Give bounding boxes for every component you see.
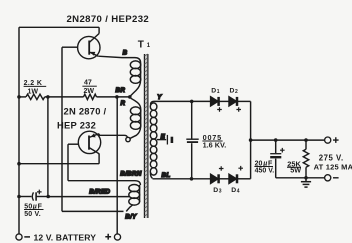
svg-text:D: D [230, 88, 235, 95]
node dot BR/R junction [128, 95, 132, 99]
transformer secondary winding [150, 101, 157, 178]
diode D1 [211, 97, 219, 106]
resistor R2 47 2W [84, 94, 97, 99]
wire 50uF row left [19, 196, 31, 198]
svg-text:50 V.: 50 V. [24, 211, 41, 218]
wire D3-D4 [220, 178, 230, 180]
terminal battery plus [114, 234, 120, 240]
node dot 25K bottom [304, 176, 308, 180]
node dot plus rail junction [249, 138, 253, 142]
terminal output plus [325, 137, 331, 143]
svg-text:D: D [231, 187, 236, 194]
transformer primary winding upper B-BR [130, 61, 140, 96]
label plus D3 [219, 166, 224, 171]
label D4 [231, 187, 240, 194]
label D2 [230, 88, 239, 95]
label 50uF / 50V [24, 203, 42, 218]
transformer primary winding lower B/BRN-B/RED-B/Y [126, 185, 139, 212]
wire Q2 base rail down [67, 144, 69, 181]
resistor R3 25K 5W [303, 140, 308, 178]
node dot 50uF / B-RED junction [46, 195, 50, 199]
svg-text:B/RED: B/RED [89, 188, 110, 195]
wire Q1 base row to B/Y [62, 210, 124, 212]
svg-text:2N 2870 /: 2N 2870 / [64, 106, 107, 117]
svg-text:47: 47 [84, 80, 92, 87]
transistor Q2 [78, 131, 100, 153]
wire Q2 emitter row [99, 134, 128, 138]
label 25K / 5W [287, 159, 301, 174]
label 0075 / 1.6KV [203, 133, 227, 150]
svg-text:D: D [211, 88, 216, 95]
wire top rail (Q1 collector to left rail) [19, 26, 99, 28]
terminal output minus [325, 175, 331, 181]
svg-text:B/Y: B/Y [125, 213, 137, 220]
transformer feedback winding R [130, 98, 141, 138]
wire minus rail [276, 177, 325, 179]
svg-text:B: B [123, 50, 128, 57]
svg-text:3: 3 [219, 188, 222, 194]
wire +12 rail [116, 97, 118, 234]
terminal open circle R winding end [126, 137, 130, 141]
node dot left rail / 50uF row [17, 195, 21, 199]
node dot collector row / left rail [17, 162, 21, 166]
svg-text:1: 1 [147, 43, 151, 49]
label T1 [138, 40, 151, 51]
wire secondary bottom rail [153, 178, 211, 180]
label Q2 2N2870/HEP232 [57, 106, 107, 131]
diode D2 [229, 97, 237, 106]
diode D3 [211, 174, 219, 183]
wire D4 to plus node [238, 178, 251, 180]
svg-text:AT 125 MA: AT 125 MA [314, 163, 352, 172]
label battery plus sign [105, 234, 111, 240]
label output minus sign [333, 177, 339, 179]
label plus C3 [280, 148, 285, 153]
wire secondary top rail [154, 100, 211, 102]
wire D2 to plus node [238, 100, 251, 102]
label 2.2K / 1W [24, 80, 43, 96]
node dot top rail cap branch [190, 100, 194, 104]
wire Q2 base lead [68, 143, 78, 145]
ground symbol [301, 178, 311, 187]
svg-text:T: T [138, 40, 144, 51]
wire Q1 base rail down [61, 47, 63, 211]
label output plus sign [333, 137, 339, 143]
label plus D4 [238, 166, 243, 171]
node dot 20uF top [274, 138, 278, 142]
wire rectifier plus node vertical [250, 101, 252, 178]
svg-text:E: E [161, 134, 166, 141]
capacitor C1 50uF 50V [32, 192, 36, 200]
wire Q1 emitter to transformer B lead [98, 56, 140, 63]
wire resistor row middle [45, 96, 84, 98]
label 47 / 2W [84, 80, 95, 95]
svg-text:275 V.: 275 V. [319, 154, 344, 163]
label plus D1 [217, 107, 222, 112]
wire Q2 base row to B/BRN [68, 181, 140, 185]
wire Q1 base lead [62, 46, 78, 48]
wire Q1 collector drop [98, 27, 100, 33]
label D1 [211, 88, 220, 95]
transformer E tap with chassis bars [157, 135, 172, 145]
node dot 25K top [304, 138, 308, 142]
node dot 2.2K/47 junction [46, 95, 50, 99]
svg-text:Y: Y [157, 94, 162, 101]
capacitor C2 0075 1.6KV [186, 101, 198, 178]
wire Q2 collector lead [98, 153, 100, 164]
svg-text:R: R [121, 100, 126, 107]
transformer T1 core [144, 54, 148, 218]
node dot left rail / resistor row [17, 95, 21, 99]
svg-text:2N2870 / HEP232: 2N2870 / HEP232 [67, 14, 150, 25]
label 20uF / 450V [255, 160, 275, 174]
terminal battery minus [16, 234, 22, 240]
svg-text:HEP 232: HEP 232 [57, 120, 96, 131]
label D3 [213, 187, 222, 194]
svg-text:D: D [213, 187, 218, 194]
resistor R1 2.2K 1W [26, 94, 45, 99]
svg-text:1.6 KV.: 1.6 KV. [203, 141, 227, 150]
capacitor C3 20uF 450V [270, 140, 281, 178]
wire bias junction drop [47, 97, 49, 197]
diode D4 [229, 174, 237, 183]
svg-text:1: 1 [217, 89, 220, 95]
svg-text:B/BRN: B/BRN [120, 170, 142, 177]
svg-text:2W: 2W [84, 88, 95, 95]
svg-text:450 V.: 450 V. [255, 168, 275, 175]
label plus D2 [236, 107, 241, 112]
wire resistor row right [97, 96, 130, 98]
wire Q2 collector row to left rail [19, 163, 99, 165]
svg-text:2.2 K: 2.2 K [24, 80, 43, 87]
wire plus output rail [251, 139, 325, 141]
transistor Q1 [78, 34, 100, 59]
label 275V AT 125MA [314, 154, 352, 172]
wire resistor row left [19, 96, 26, 98]
svg-text:1W: 1W [28, 89, 39, 96]
wire B/RED row [48, 196, 129, 198]
svg-text:4: 4 [237, 188, 240, 194]
node dot bottom rail cap branch [190, 177, 194, 181]
label battery minus sign [24, 236, 30, 238]
wire D1-D2 [220, 100, 230, 102]
svg-text:2: 2 [235, 89, 238, 95]
svg-text:12 V. BATTERY: 12 V. BATTERY [34, 232, 97, 242]
node dot +12 junction [115, 95, 119, 99]
svg-text:BR: BR [116, 87, 126, 94]
wire left rail [18, 27, 20, 234]
wire 50uF row right [37, 196, 49, 198]
label plus C1 [37, 190, 42, 195]
